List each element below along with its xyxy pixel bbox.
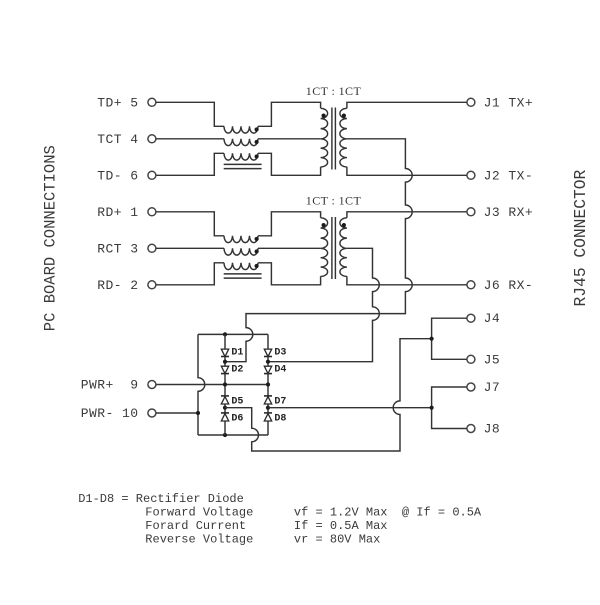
svg-text:D2: D2 bbox=[231, 365, 243, 376]
wire T2 secondary top to J3 bbox=[347, 212, 467, 218]
pin TCT 4 bbox=[97, 132, 156, 147]
choke L1 winding B bbox=[224, 139, 259, 146]
pin J5 bbox=[467, 352, 500, 367]
svg-text:TCT 4: TCT 4 bbox=[97, 132, 138, 147]
node D3-D4 junction bbox=[266, 360, 270, 364]
wire T1 secondary bottom to J2 bbox=[347, 167, 467, 175]
wire J4/J5 bracket bbox=[432, 318, 467, 359]
transformer T1 primary winding bbox=[321, 108, 328, 167]
svg-text:Forard Current: Forard Current bbox=[145, 519, 246, 533]
wire node D5-D6 to J4/J5 junction bbox=[225, 339, 432, 451]
wire choke L2B to transformer T2 primary center tap bbox=[258, 247, 321, 249]
wire RD+ pin to choke L2A bbox=[156, 212, 224, 236]
choke L1 winding C bbox=[224, 153, 259, 160]
pin PWR+ 9 bbox=[81, 378, 156, 393]
svg-text:D5: D5 bbox=[231, 396, 243, 407]
pin J7 bbox=[467, 380, 500, 395]
choke L2 winding B bbox=[224, 248, 259, 255]
svg-text:1CT : 1CT: 1CT : 1CT bbox=[306, 194, 362, 208]
wire T1 secondary center tap to node D1-D2 bbox=[225, 139, 412, 362]
diode D4 bbox=[264, 366, 272, 373]
wire TD- pin to choke L1C bbox=[156, 153, 224, 175]
pin TD- 6 bbox=[97, 168, 156, 183]
transformer T1 secondary winding bbox=[340, 108, 347, 167]
pin RD+ 1 bbox=[97, 205, 156, 220]
diode D1 bbox=[221, 349, 229, 356]
pin J8 bbox=[467, 422, 500, 437]
svg-text:J4: J4 bbox=[484, 311, 501, 326]
diode D6 bbox=[221, 413, 229, 421]
wire TCT pin to choke L1B bbox=[156, 138, 224, 140]
transformer T2 primary winding bbox=[321, 218, 328, 277]
svg-text:Reverse Voltage: Reverse Voltage bbox=[145, 533, 253, 547]
wire PWR- to bracket bbox=[156, 412, 198, 414]
node D5-D6 junction bbox=[223, 406, 227, 410]
svg-text:D6: D6 bbox=[231, 413, 243, 424]
wire choke L2C to transformer T2 primary bottom bbox=[258, 263, 321, 285]
svg-text:RD- 2: RD- 2 bbox=[97, 278, 138, 293]
node PWR+ left chain bbox=[223, 382, 227, 386]
pin J3 bbox=[467, 205, 533, 220]
wire left diode chain bbox=[224, 334, 226, 435]
choke L2 core bbox=[224, 274, 262, 278]
svg-text:J1 TX+: J1 TX+ bbox=[484, 95, 534, 110]
svg-text:PWR- 10: PWR- 10 bbox=[81, 406, 139, 421]
svg-text:RD+ 1: RD+ 1 bbox=[97, 205, 138, 220]
svg-text:J3 RX+: J3 RX+ bbox=[484, 205, 534, 220]
node PWR- junction bbox=[196, 411, 200, 415]
svg-text:PC BOARD CONNECTIONS: PC BOARD CONNECTIONS bbox=[41, 145, 59, 331]
svg-text:D1: D1 bbox=[231, 348, 243, 359]
wire J7/J8 bracket bbox=[432, 387, 467, 429]
wire bridge bottom rail bbox=[198, 434, 268, 436]
svg-text:D4: D4 bbox=[274, 365, 286, 376]
svg-text:D1-D8 = Rectifier Diode: D1-D8 = Rectifier Diode bbox=[78, 492, 244, 506]
transformer T1 core bbox=[332, 108, 336, 170]
diode D7 bbox=[264, 396, 272, 404]
transformer T2 core bbox=[332, 217, 336, 279]
pin J4 bbox=[467, 311, 500, 326]
node PWR+ right chain bbox=[266, 382, 270, 386]
node D7-D8 junction bbox=[266, 406, 270, 410]
wire RCT pin to choke L2B bbox=[156, 247, 224, 249]
transformer T2 secondary winding bbox=[340, 218, 347, 277]
pin RD- 2 bbox=[97, 278, 156, 293]
choke L1 core bbox=[224, 164, 262, 168]
node J4/J5 junction bbox=[430, 337, 434, 341]
node D1-D2 junction bbox=[223, 360, 227, 364]
wire TD+ pin to choke L1A bbox=[156, 102, 224, 126]
svg-text:vr = 80V Max: vr = 80V Max bbox=[294, 533, 380, 547]
svg-text:D7: D7 bbox=[274, 396, 286, 407]
pin J1 bbox=[467, 95, 533, 110]
svg-text:TD+ 5: TD+ 5 bbox=[97, 95, 138, 110]
wire bridge left bracket (top rail to bottom rail) bbox=[198, 334, 205, 435]
wire right diode chain bbox=[267, 334, 269, 435]
node top rail / D1 anode bbox=[223, 332, 227, 336]
diode D5 bbox=[221, 396, 229, 404]
wire PWR+ rail bbox=[156, 384, 268, 386]
svg-text:J6 RX-: J6 RX- bbox=[484, 278, 534, 293]
svg-text:RCT 3: RCT 3 bbox=[97, 241, 138, 256]
choke L1 winding A bbox=[224, 126, 259, 133]
pin RCT 3 bbox=[97, 241, 156, 256]
choke L2 winding A bbox=[224, 236, 259, 243]
pin PWR- 10 bbox=[81, 406, 156, 421]
pin J6 bbox=[467, 278, 533, 293]
wire T1 secondary top to J1 bbox=[347, 102, 467, 108]
wire node D7-D8 to J7/J8 junction bbox=[268, 407, 432, 409]
node J7/J8 junction bbox=[430, 406, 434, 410]
wire bridge top rail bbox=[198, 333, 268, 335]
wire choke L1C to transformer T1 primary bottom bbox=[258, 153, 321, 175]
svg-text:J5: J5 bbox=[484, 352, 501, 367]
diode D2 bbox=[221, 366, 229, 373]
wire choke L1B to transformer T1 primary center tap bbox=[258, 138, 321, 140]
note line 2 bbox=[145, 506, 482, 520]
pin J2 bbox=[467, 168, 533, 183]
node bottom rail / D6 chain bbox=[223, 433, 227, 437]
wire RD- pin to choke L2C bbox=[156, 263, 224, 285]
pin TD+ 5 bbox=[97, 95, 156, 110]
wire choke L1A to transformer T1 primary top bbox=[258, 102, 321, 126]
note line 4 bbox=[145, 533, 380, 547]
svg-text:D8: D8 bbox=[274, 413, 286, 424]
svg-text:J2 TX-: J2 TX- bbox=[484, 168, 534, 183]
svg-text:Forward Voltage: Forward Voltage bbox=[145, 506, 253, 520]
note line 3 bbox=[145, 519, 387, 533]
diode D3 bbox=[264, 349, 272, 356]
svg-text:PWR+ 9: PWR+ 9 bbox=[81, 378, 139, 393]
svg-text:1CT : 1CT: 1CT : 1CT bbox=[306, 84, 362, 98]
choke L2 winding C bbox=[224, 263, 259, 270]
svg-text:J7: J7 bbox=[484, 380, 501, 395]
svg-text:If = 0.5A Max: If = 0.5A Max bbox=[294, 519, 388, 533]
svg-text:vf = 1.2V Max @ If = 0.5A: vf = 1.2V Max @ If = 0.5A bbox=[294, 506, 482, 520]
svg-text:RJ45 CONNECTOR: RJ45 CONNECTOR bbox=[571, 169, 590, 306]
wire T2 secondary center tap to node D3-D4 bbox=[268, 248, 379, 361]
svg-text:J8: J8 bbox=[484, 422, 501, 437]
diode D8 bbox=[264, 413, 272, 421]
svg-text:D3: D3 bbox=[274, 348, 286, 359]
svg-text:TD- 6: TD- 6 bbox=[97, 168, 138, 183]
wire choke L2A to transformer T2 primary top bbox=[258, 212, 321, 236]
wire T2 secondary bottom to J6 bbox=[347, 276, 467, 284]
